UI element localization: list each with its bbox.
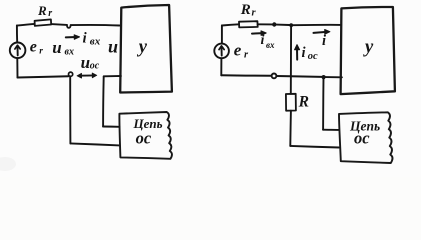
svg-text:вх: вх — [65, 46, 74, 57]
terminal kink (left top wire) — [67, 25, 71, 28]
svg-text:i: i — [322, 33, 326, 49]
source e_g (right) — [214, 44, 229, 59]
wire: node C to amplifier lower input (right) — [326, 76, 342, 78]
terminal loop (left bottom wire) — [69, 72, 73, 76]
wire: bottom wire source to loop terminal (left) — [18, 76, 69, 77]
resistor R (right) — [286, 94, 296, 111]
wire: source top lead (left) — [16, 25, 18, 42]
svg-text:R: R — [298, 94, 309, 111]
wire: resistor to node (right) — [258, 23, 273, 25]
svg-text:i: i — [261, 33, 265, 48]
svg-text:r: r — [39, 47, 43, 57]
svg-text:r: r — [48, 8, 52, 19]
feedback box Tsep OC (left) — [119, 112, 172, 159]
source e_g (left) — [10, 43, 26, 59]
svg-text:вх: вх — [90, 36, 101, 48]
wire: node B to amplifier (right) — [293, 24, 341, 26]
svg-text:u: u — [81, 53, 90, 72]
svg-text:R: R — [240, 2, 251, 18]
paper background — [0, 0, 421, 177]
svg-text:у: у — [137, 37, 148, 57]
node dot A (right top wire) — [272, 22, 276, 26]
svg-text:i: i — [302, 45, 306, 61]
ring terminal (right bottom wire) — [272, 74, 277, 79]
wire: node C down and right to OC box upper lead (right) — [322, 77, 324, 129]
feedback box Tsep OC (right) — [339, 112, 392, 163]
wire: loop terminal down and right to OC box lower lead (left) — [69, 76, 71, 143]
svg-text:ос: ос — [90, 60, 100, 71]
node dot C (right bottom wire) — [322, 75, 326, 79]
svg-text:e: e — [234, 40, 242, 59]
wire: resistor to amplifier with terminal kink (left) — [51, 23, 67, 26]
wire: ring to junction C crossing R branch (right) — [277, 75, 322, 78]
wire: source top lead (right) — [221, 26, 223, 44]
arrow up i_oc (right) — [296, 48, 298, 60]
wire: R branch vertical from node B (right) — [290, 25, 292, 93]
svg-text:R: R — [37, 3, 47, 18]
arrow i_vx (left) — [66, 36, 77, 38]
wire: amplifier lower input to junction (left) — [104, 75, 121, 77]
svg-text:u: u — [52, 38, 61, 57]
arrow i_vx (right) — [252, 32, 263, 35]
double arrow U_oc (left) — [80, 74, 94, 76]
wire: source bottom lead (left) — [16, 58, 18, 77]
svg-text:ос: ос — [308, 51, 318, 62]
wire: bottom wire to ring terminal (right) — [221, 74, 271, 77]
wire: source bottom lead (right) — [220, 58, 222, 75]
svg-text:ос: ос — [354, 129, 370, 148]
svg-text:у: у — [363, 37, 374, 57]
svg-text:ос: ос — [136, 128, 152, 147]
svg-text:вх: вх — [266, 40, 275, 50]
amplifier box U (right) — [341, 7, 395, 94]
wire: corner to resistor (right) — [222, 24, 239, 25]
resistor R_g (right) — [239, 21, 258, 27]
node dot B (R branch tap) — [289, 23, 293, 27]
wire: node A to node B (right) — [276, 24, 289, 26]
faint smudge bottom-left — [0, 157, 16, 171]
wire: top-left corner to resistor (left) — [17, 24, 35, 26]
wire: R lower lead down and right to OC box (right) — [289, 111, 292, 146]
resistor R_g (left) — [35, 19, 52, 26]
wire: junction down to OC box upper lead (left) — [102, 76, 105, 126]
arrow i out (right, above wire near box) — [314, 32, 327, 33]
svg-text:e: e — [30, 39, 37, 56]
svg-text:u: u — [108, 36, 118, 56]
amplifier box U (left) — [120, 5, 172, 93]
